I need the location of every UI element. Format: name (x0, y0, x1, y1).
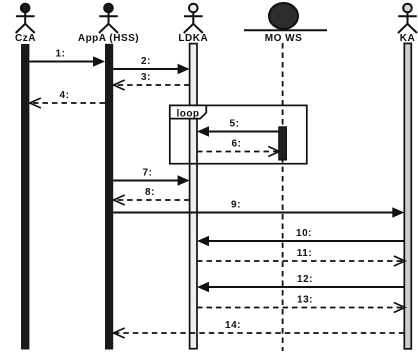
svg-text:loop: loop (176, 108, 199, 119)
message 5 wire MO WS to LDKA (208, 131, 279, 133)
entity symbol MO WS baseline (244, 29, 327, 31)
message 13 wire LDKA to KA (reply) (197, 307, 403, 309)
message 8 arrowhead open (114, 195, 125, 205)
message 4 wire AppA to CzA (reply) (30, 102, 105, 104)
svg-text:8:: 8: (145, 187, 155, 198)
activation bar KA (404, 43, 411, 348)
svg-text:2:: 2: (141, 56, 151, 67)
message 14 arrowhead open (114, 328, 125, 338)
actor LDKA figure (184, 4, 203, 33)
svg-text:LDKA: LDKA (178, 33, 208, 44)
svg-text:6:: 6: (232, 139, 242, 150)
message 3 wire LDKA to AppA (reply) (114, 84, 189, 86)
message 9 arrowhead (392, 207, 404, 218)
message 8 wire LDKA to AppA (reply) (114, 199, 189, 201)
activation bar MO WS (279, 127, 287, 160)
message 5 arrowhead (197, 126, 209, 137)
message 7 wire AppA to LDKA (113, 180, 178, 182)
svg-text:CzA: CzA (15, 33, 36, 44)
svg-text:14:: 14: (225, 320, 241, 331)
activation bar CzA (21, 44, 29, 350)
message 11 arrowhead open (394, 256, 405, 266)
message 10 wire KA to LDKA (208, 240, 404, 242)
message 4 arrowhead open (30, 98, 41, 108)
message 6 wire LDKA to MO WS (reply) (197, 151, 278, 153)
svg-text:13:: 13: (297, 295, 313, 306)
svg-text:11:: 11: (297, 248, 312, 259)
message 3 arrowhead open (114, 80, 125, 90)
svg-text:AppA (HSS): AppA (HSS) (78, 33, 139, 44)
svg-text:9:: 9: (231, 200, 241, 211)
actor CzA figure (16, 4, 35, 33)
message 7 arrowhead (178, 175, 190, 186)
svg-text:3:: 3: (141, 72, 151, 83)
message 13 arrowhead open (394, 303, 405, 313)
loop fragment frame (170, 105, 307, 163)
message 10 arrowhead (197, 236, 209, 247)
svg-text:12:: 12: (297, 274, 313, 285)
svg-text:4:: 4: (60, 90, 70, 101)
svg-text:10:: 10: (296, 228, 312, 239)
activation bar LDKA (190, 44, 197, 349)
svg-text:1:: 1: (56, 49, 66, 60)
message 1 arrowhead (93, 56, 105, 67)
message 12 arrowhead (197, 282, 209, 293)
actor AppA (HSS) figure (99, 4, 118, 33)
actor KA figure (398, 4, 417, 33)
message 12 wire KA to LDKA (208, 286, 404, 288)
svg-text:KA: KA (400, 33, 415, 44)
svg-text:7:: 7: (143, 168, 153, 179)
message 2 arrowhead (178, 64, 190, 75)
message 2 wire AppA to LDKA (113, 68, 178, 70)
entity symbol MO WS circle (269, 3, 298, 29)
message 14 wire KA to AppA (reply) (114, 332, 404, 334)
activation bar AppA (HSS) (105, 44, 113, 350)
svg-text:5:: 5: (230, 119, 240, 130)
message 11 wire LDKA to KA (reply) (197, 260, 403, 262)
message 9 wire AppA to KA (113, 212, 392, 214)
lifeline MO WS (dashed) (282, 43, 284, 351)
loop fragment pentagon (170, 105, 207, 118)
message 6 arrowhead open (268, 147, 279, 157)
message 1 wire CzA to AppA (29, 61, 94, 63)
svg-text:MO WS: MO WS (265, 33, 303, 44)
